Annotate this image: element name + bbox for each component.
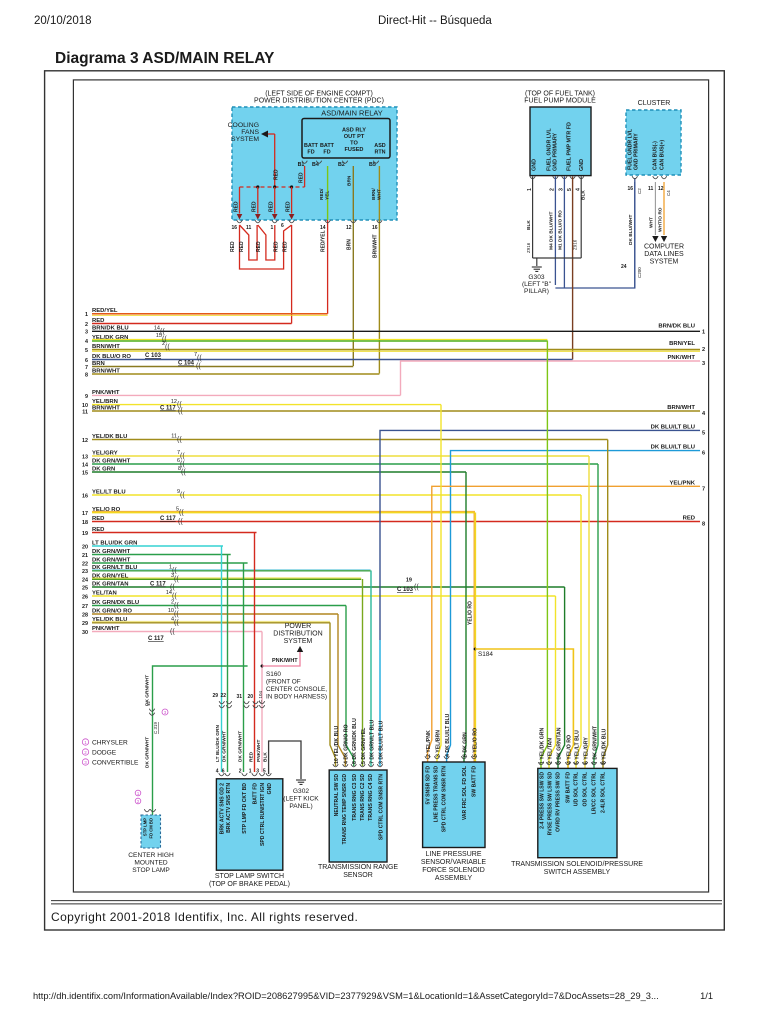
svg-text:11: 11 [648,186,654,192]
svg-text:DK BLU/WHT: DK BLU/WHT [628,215,634,245]
svg-text:5 YEL/LT BLU: 5 YEL/LT BLU [574,730,580,764]
svg-text:((: (( [174,620,179,627]
svg-text:GND PRIMARY: GND PRIMARY [634,133,640,170]
svg-text:((: (( [174,576,179,583]
svg-text:3 DK GRN/TAN: 3 DK GRN/TAN [556,727,562,764]
svg-text:RED: RED [282,241,288,252]
svg-text:C200: C200 [637,267,642,278]
svg-text:DATA LINES: DATA LINES [644,251,684,258]
svg-text:26: 26 [82,594,88,600]
svg-text:4 YEL/O RO: 4 YEL/O RO [566,735,572,764]
svg-text:4 DK GRN/O RO: 4 DK GRN/O RO [344,725,350,765]
svg-text:UD SOL CTRL: UD SOL CTRL [574,772,580,806]
svg-text:2: 2 [84,750,87,755]
svg-text:4: 4 [85,339,88,345]
svg-text:M4 DK BLU/WHT: M4 DK BLU/WHT [549,212,555,250]
svg-text:16: 16 [82,493,88,499]
svg-text:3: 3 [702,361,705,367]
svg-text:RED: RED [233,201,239,212]
svg-text:TRANSMISSION SOLENOID/PRESSURE: TRANSMISSION SOLENOID/PRESSURE [511,861,643,868]
svg-text:CONVERTIBLE: CONVERTIBLE [92,760,139,767]
svg-text:BRK ACTV SNS RTN: BRK ACTV SNS RTN [226,783,232,833]
svg-text:11: 11 [246,225,252,231]
svg-text:C2: C2 [637,188,642,194]
svg-text:2-4LR SOL CTRL: 2-4LR SOL CTRL [601,772,607,813]
svg-text:2 YEL/PNK: 2 YEL/PNK [426,730,432,757]
svg-text:G303: G303 [528,274,544,281]
svg-text:FD: FD [323,150,330,156]
svg-text:BRN/YEL: BRN/YEL [669,341,695,347]
svg-text:PNK/WHT: PNK/WHT [272,658,298,664]
svg-text:Diagrama 3 ASD/MAIN RELAY: Diagrama 3 ASD/MAIN RELAY [55,50,275,67]
svg-text:16: 16 [628,186,634,192]
svg-text:BRN/WHT: BRN/WHT [373,234,379,258]
svg-text:22: 22 [82,561,88,567]
svg-text:TRANSMISSION RANGE: TRANSMISSION RANGE [318,864,398,871]
svg-text:30: 30 [82,630,88,636]
svg-text:GND: GND [532,159,538,171]
svg-text:RED: RED [256,241,262,252]
svg-text:18: 18 [82,520,88,526]
svg-text:RED: RED [273,241,279,252]
svg-text:8 YEL/DK BLU: 8 YEL/DK BLU [601,728,607,764]
svg-text:C 117: C 117 [160,516,176,522]
svg-text:7: 7 [702,486,705,492]
svg-text:TRANS RNG C2 SD: TRANS RNG C2 SD [360,774,366,821]
svg-text:1: 1 [249,769,252,775]
svg-text:TRANS RNG C4 SD: TRANS RNG C4 SD [368,774,374,821]
svg-text:RED/: RED/ [319,188,325,200]
svg-text:4 DK BLU/LT BLU: 4 DK BLU/LT BLU [445,713,451,757]
svg-text:SW BATT FD: SW BATT FD [472,766,478,797]
svg-text:(LEFT SIDE OF ENGINE COMPT): (LEFT SIDE OF ENGINE COMPT) [265,91,373,98]
svg-text:DK BLU/LT BLU: DK BLU/LT BLU [651,445,695,451]
svg-text:3 YEL/BRN: 3 YEL/BRN [435,730,441,757]
svg-text:S184: S184 [478,651,493,658]
svg-text:((: (( [178,408,183,415]
svg-text:((: (( [197,355,202,362]
svg-text:RVSE PRESS SW LSW SD: RVSE PRESS SW LSW SD [548,772,554,836]
svg-text:1: 1 [271,225,274,231]
svg-text:2: 2 [85,322,88,328]
svg-text:15: 15 [82,470,88,476]
svg-text:SYSTEM: SYSTEM [650,259,679,266]
svg-text:14: 14 [82,462,88,468]
svg-text:PNK/WHT: PNK/WHT [256,740,262,762]
svg-text:Z916: Z916 [573,239,578,250]
svg-text:POWER: POWER [285,623,311,630]
svg-text:7: 7 [85,365,88,371]
svg-text:1 YEL/DK GRN: 1 YEL/DK GRN [539,728,545,764]
svg-text:OUT PT: OUT PT [344,134,365,140]
svg-text:http://dh.identifix.com/Inform: http://dh.identifix.com/InformationAvail… [33,991,659,1001]
svg-text:4: 4 [702,411,706,417]
svg-text:RED: RED [248,751,254,762]
svg-text:20: 20 [247,694,253,700]
svg-text:C 104: C 104 [258,690,263,703]
svg-text:5: 5 [85,348,88,354]
svg-text:16: 16 [372,225,378,231]
svg-text:16: 16 [232,225,238,231]
svg-text:(FRONT OF: (FRONT OF [266,679,301,686]
svg-text:2: 2 [702,347,705,353]
svg-text:DK BLU/LT BLU: DK BLU/LT BLU [651,424,695,430]
svg-text:((: (( [170,629,175,636]
svg-text:Z916: Z916 [526,242,531,253]
svg-text:2-4 PRESS SW LSW SD: 2-4 PRESS SW LSW SD [540,772,546,829]
svg-text:LR/CC SOL CTRL: LR/CC SOL CTRL [592,772,598,814]
svg-text:BRN: BRN [347,175,353,186]
svg-text:((: (( [180,492,185,499]
svg-text:5: 5 [263,769,266,775]
svg-text:3: 3 [85,330,88,336]
svg-text:COOLING: COOLING [228,122,259,129]
svg-text:14: 14 [320,225,326,231]
svg-text:FORCE SOLENOID: FORCE SOLENOID [422,867,485,874]
svg-text:(TOP OF FUEL TANK): (TOP OF FUEL TANK) [525,91,595,98]
svg-text:C4: C4 [666,190,671,196]
svg-text:27: 27 [82,604,88,610]
svg-text:5 YEL/O RO: 5 YEL/O RO [472,728,478,757]
svg-text:RTN: RTN [374,150,385,156]
svg-text:TRANS RNG TEMP SNSR GD: TRANS RNG TEMP SNSR GD [342,774,348,845]
svg-text:SPD CTRL COM SNSR RTN: SPD CTRL COM SNSR RTN [442,766,448,832]
svg-text:SPD CTRL COM SNSR RTN: SPD CTRL COM SNSR RTN [379,774,385,840]
svg-text:1: 1 [527,188,533,191]
svg-text:ASD/MAIN RELAY: ASD/MAIN RELAY [321,109,383,118]
svg-text:BRN/DK BLU: BRN/DK BLU [658,323,695,329]
svg-text:WHT/O RO: WHT/O RO [658,207,664,232]
svg-text:FD: FD [307,150,314,156]
svg-text:24: 24 [621,264,627,270]
svg-text:7 DK GRN/WHT: 7 DK GRN/WHT [592,725,598,764]
svg-text:22: 22 [220,693,226,699]
svg-text:DK GRN/WHT: DK GRN/WHT [145,737,151,768]
svg-text:SYSTEM: SYSTEM [231,136,259,143]
svg-text:BRN/WHT: BRN/WHT [667,405,695,411]
svg-text:13: 13 [82,454,88,460]
svg-text:11: 11 [82,409,88,415]
svg-text:BRN/: BRN/ [371,188,377,200]
svg-text:SENSOR: SENSOR [343,872,373,879]
svg-text:3: 3 [84,760,87,765]
svg-text:Direct-Hit -- Búsqueda: Direct-Hit -- Búsqueda [378,15,492,27]
svg-text:RED: RED [239,241,245,252]
svg-text:FUEL PMP MTR FD: FUEL PMP MTR FD [567,122,573,171]
svg-text:1: 1 [702,329,705,335]
svg-text:SW BATT FD: SW BATT FD [566,772,572,803]
svg-text:3 DK BLU/LT BLU: 3 DK BLU/LT BLU [378,720,384,764]
svg-text:((: (( [181,469,186,476]
svg-text:FUEL PUMP MODULE: FUEL PUMP MODULE [524,98,596,105]
svg-text:C 117: C 117 [160,406,176,412]
svg-text:6: 6 [85,358,88,364]
svg-text:(TOP OF BRAKE PEDAL): (TOP OF BRAKE PEDAL) [209,881,290,888]
svg-text:10 YEL/DK BLU: 10 YEL/DK BLU [334,726,340,764]
svg-text:PILLAR): PILLAR) [524,288,549,295]
svg-text:19: 19 [406,578,412,584]
svg-text:6 DK GRN: 6 DK GRN [462,732,468,757]
svg-text:8: 8 [702,522,705,528]
svg-text:9: 9 [85,394,88,400]
svg-text:WHT: WHT [649,217,655,228]
svg-text:17: 17 [82,511,88,517]
svg-text:ASD RLY: ASD RLY [342,128,366,134]
svg-text:CENTER HIGH: CENTER HIGH [128,852,174,859]
svg-text:VAR FRC SOL FD SOL: VAR FRC SOL FD SOL [462,766,468,820]
svg-text:G302: G302 [293,788,309,795]
svg-text:29: 29 [212,693,218,699]
svg-text:C 104: C 104 [178,361,195,367]
svg-text:MOUNTED: MOUNTED [134,860,168,867]
svg-text:DK GRN/WHT: DK GRN/WHT [221,731,227,762]
svg-text:DK GRN/WHT: DK GRN/WHT [237,731,243,762]
svg-text:S160: S160 [266,671,281,678]
svg-text:20: 20 [82,544,88,550]
svg-text:5 DK GRN/YEL: 5 DK GRN/YEL [361,727,367,764]
svg-text:6: 6 [702,451,705,457]
svg-text:21: 21 [82,553,88,559]
svg-text:FANS: FANS [241,129,259,136]
svg-text:29: 29 [82,621,88,627]
svg-text:TRANS RNG C3 SD: TRANS RNG C3 SD [352,774,358,821]
svg-text:31: 31 [236,694,242,700]
svg-text:BLK: BLK [581,190,587,200]
svg-text:8: 8 [85,372,88,378]
svg-text:((: (( [174,611,179,618]
svg-text:BLK: BLK [526,220,532,230]
svg-text:6: 6 [222,769,225,775]
svg-text:RED: RED [230,241,236,252]
svg-text:GND: GND [579,159,585,171]
svg-text:((: (( [414,584,419,591]
svg-text:4: 4 [216,769,219,775]
svg-text:1: 1 [84,740,87,745]
svg-text:7 DK GRN/LT BLU: 7 DK GRN/LT BLU [369,719,375,764]
svg-text:DISTRIBUTION: DISTRIBUTION [273,631,322,638]
svg-text:23: 23 [82,569,88,575]
svg-text:(LEFT KICK: (LEFT KICK [283,796,319,803]
svg-text:YEL/O RO: YEL/O RO [468,601,474,625]
svg-text:GND: GND [267,783,273,795]
svg-text:TO: TO [350,141,358,147]
svg-text:6 YEL/GRY: 6 YEL/GRY [583,737,589,764]
svg-text:C 103: C 103 [145,353,162,359]
svg-text:3: 3 [559,188,565,191]
svg-text:PNK/WHT: PNK/WHT [668,355,696,361]
svg-text:1/1: 1/1 [700,991,713,1001]
svg-text:RED/YEL: RED/YEL [321,230,327,252]
svg-text:10: 10 [82,403,88,409]
svg-text:12: 12 [346,225,352,231]
svg-text:((: (( [179,510,184,517]
svg-text:BATT: BATT [320,143,335,149]
svg-text:RED: RED [274,169,280,180]
svg-text:28: 28 [82,612,88,618]
svg-text:12: 12 [658,186,664,192]
svg-text:BLK: BLK [263,752,269,762]
svg-text:LNE PRESS TRANS SD: LNE PRESS TRANS SD [434,766,440,823]
svg-text:BRN: BRN [347,239,353,250]
svg-text:IN BODY HARNESS): IN BODY HARNESS) [266,694,327,701]
svg-text:3: 3 [256,769,259,775]
svg-text:C 319: C 319 [153,721,158,734]
svg-text:OD SOL CTRL: OD SOL CTRL [583,772,589,806]
svg-text:BATT: BATT [304,143,319,149]
svg-text:SWITCH ASSEMBLY: SWITCH ASSEMBLY [544,869,611,876]
svg-text:ASSEMBLY: ASSEMBLY [435,875,473,882]
svg-text:5: 5 [702,430,705,436]
svg-text:((: (( [165,344,170,351]
svg-text:YEL/PNK: YEL/PNK [669,480,695,486]
svg-text:DK GRN/WHT: DK GRN/WHT [145,675,151,706]
svg-text:1: 1 [85,312,88,318]
svg-text:STOP LAMP SWITCH: STOP LAMP SWITCH [215,873,284,880]
svg-text:NEUTRAL SW SD: NEUTRAL SW SD [334,774,340,817]
svg-text:C 117: C 117 [148,636,164,642]
svg-text:2: 2 [550,188,556,191]
svg-text:4: 4 [575,188,581,191]
svg-text:C 103: C 103 [397,587,414,593]
svg-text:LINE PRESSURE: LINE PRESSURE [425,851,481,858]
svg-text:8 DK GRN/DK BLU: 8 DK GRN/DK BLU [352,718,358,764]
svg-text:DODGE: DODGE [92,750,117,757]
svg-text:12: 12 [82,438,88,444]
svg-text:POWER DISTRIBUTION CENTER (PDC: POWER DISTRIBUTION CENTER (PDC) [254,98,384,105]
svg-text:((: (( [196,363,201,370]
svg-text:RED: RED [285,201,291,212]
svg-text:24: 24 [82,577,88,583]
svg-text:COMPUTER: COMPUTER [644,244,684,251]
svg-text:Copyright 2001-2018 Identifix,: Copyright 2001-2018 Identifix, Inc. All … [51,910,358,924]
svg-text:((: (( [178,519,183,526]
svg-text:(LEFT "B": (LEFT "B" [522,281,552,288]
svg-text:SENSOR/VARIABLE: SENSOR/VARIABLE [421,859,487,866]
svg-text:FUSED: FUSED [345,147,364,153]
svg-text:((: (( [174,603,179,610]
svg-text:20/10/2018: 20/10/2018 [34,15,92,27]
svg-text:CLUSTER: CLUSTER [638,100,671,107]
svg-text:CHRYSLER: CHRYSLER [92,740,128,747]
svg-text:STOP LAMP: STOP LAMP [132,867,170,874]
svg-text:CAN BUS(+): CAN BUS(+) [660,140,666,170]
svg-text:GND PRIMARY: GND PRIMARY [553,132,559,171]
svg-text:5V SNSR SD FD: 5V SNSR SD FD [426,766,432,805]
svg-text:BRK ACTV SNS GD 2: BRK ACTV SNS GD 2 [219,783,225,834]
svg-text:C 117: C 117 [150,582,166,588]
svg-text:ASD: ASD [374,143,385,149]
svg-text:BATT FD: BATT FD [253,783,259,805]
svg-text:SYSTEM: SYSTEM [284,638,313,645]
svg-text:2: 2 [239,769,242,775]
svg-text:19: 19 [82,531,88,537]
svg-text:RED: RED [252,201,258,212]
svg-text:25: 25 [82,585,88,591]
svg-text:STP LMP: STP LMP [143,818,148,836]
svg-text:2 YEL/TAN: 2 YEL/TAN [547,738,553,764]
svg-text:CAN BUS(-): CAN BUS(-) [653,141,659,170]
svg-text:6: 6 [281,223,284,229]
svg-text:SPD CTRL RUN/STRT IGN: SPD CTRL RUN/STRT IGN [260,783,266,846]
svg-text:((: (( [177,437,182,444]
svg-text:((: (( [180,453,185,460]
svg-text:RED: RED [269,201,275,212]
svg-text:PANEL): PANEL) [289,803,312,810]
svg-text:OVRD RV PRESS SW SD: OVRD RV PRESS SW SD [556,772,562,832]
svg-text:YEL: YEL [325,191,331,200]
svg-text:WHT: WHT [377,189,383,200]
svg-text:STP LMP FD CKT BD: STP LMP FD CKT BD [242,783,248,834]
svg-text:FD CM BD: FD CM BD [149,818,154,838]
svg-text:RED: RED [683,516,695,522]
svg-text:LT BLU/DK GRN: LT BLU/DK GRN [215,725,221,762]
svg-text:RED: RED [299,172,305,183]
svg-text:M1 DK BLU/O RO: M1 DK BLU/O RO [558,210,564,250]
svg-text:CENTER CONSOLE,: CENTER CONSOLE, [266,686,327,693]
